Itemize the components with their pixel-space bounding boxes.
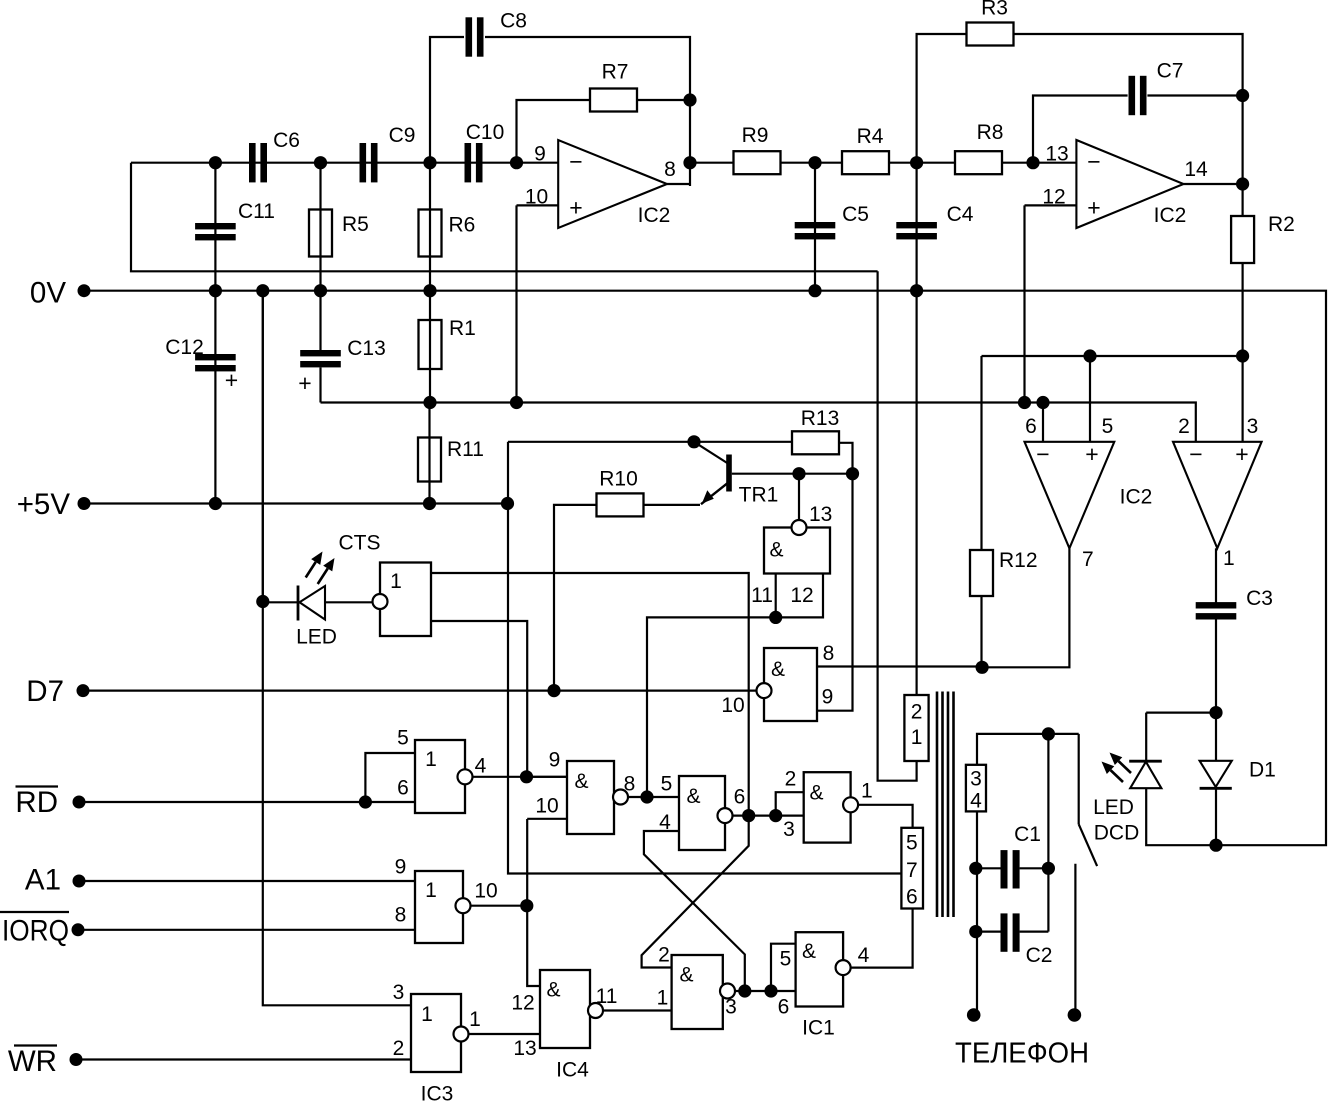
- svg-text:9: 9: [549, 749, 561, 772]
- resistor R7: [590, 89, 637, 112]
- wire winding1 bottom: [878, 271, 917, 780]
- node C11 0V junction: [209, 284, 222, 297]
- logic gate IC3a RD: [415, 740, 465, 813]
- wire pin5 loop: [365, 753, 415, 802]
- node C5 junction: [808, 156, 821, 169]
- wire bias rail upper: [131, 163, 878, 272]
- svg-text:RD: RD: [15, 786, 58, 819]
- node R6 0V junction: [423, 284, 436, 297]
- wire pin6 stub: [1042, 403, 1044, 442]
- svg-text:8: 8: [823, 642, 835, 665]
- svg-text:8: 8: [664, 158, 676, 181]
- wire LED down: [1145, 713, 1147, 762]
- svg-text:−: −: [1087, 149, 1100, 175]
- node 0V terminal: [78, 284, 91, 297]
- wire X-cross B: [644, 831, 745, 991]
- transistor TR1: [694, 442, 727, 463]
- svg-text:12: 12: [790, 584, 813, 607]
- wire pin10 input: [527, 818, 567, 820]
- node pin5 junction: [1083, 349, 1096, 362]
- wire G9 output: [735, 990, 796, 992]
- wire WR line: [76, 1058, 411, 1060]
- svg-text:6: 6: [906, 886, 918, 909]
- svg-text:10: 10: [474, 880, 497, 903]
- logic gate IC4: [540, 970, 590, 1048]
- svg-text:1: 1: [469, 1008, 481, 1031]
- node base-gate junction: [792, 467, 805, 480]
- node phone terminal left: [967, 1008, 981, 1022]
- wire IC3 output: [469, 1033, 541, 1035]
- wire pin3 stub: [1241, 356, 1243, 442]
- svg-text:3: 3: [1247, 415, 1259, 438]
- svg-text:&: &: [809, 782, 823, 805]
- capacitor C4: [896, 222, 937, 228]
- wire winding4 bottom: [976, 811, 978, 1015]
- wire CTS gate lower input: [431, 621, 527, 777]
- op-amp U4 IC2d: [1173, 442, 1262, 549]
- svg-text:C8: C8: [500, 10, 527, 33]
- wire C8 branch: [430, 37, 464, 163]
- node R1 bias junction: [423, 396, 436, 409]
- svg-text:6: 6: [397, 777, 409, 800]
- node WR terminal: [70, 1053, 83, 1066]
- svg-text:C6: C6: [273, 129, 300, 152]
- svg-text:IC2: IC2: [638, 204, 671, 227]
- svg-text:10: 10: [721, 694, 744, 717]
- capacitor C2: [976, 930, 1001, 932]
- node R12 output-7 junction: [976, 661, 989, 674]
- node RD terminal: [73, 796, 86, 809]
- svg-text:+5V: +5V: [17, 488, 71, 521]
- resistor R6: [419, 210, 442, 257]
- svg-text:−: −: [1036, 441, 1049, 467]
- node pin11 junction: [769, 611, 782, 624]
- logic gate G5 rx-enable: [567, 761, 614, 834]
- wire C7 branch: [1033, 96, 1128, 163]
- svg-text:IC4: IC4: [556, 1059, 589, 1082]
- wire output column: [1241, 96, 1243, 217]
- node decode junction: [520, 899, 533, 912]
- resistor R8: [955, 151, 1002, 174]
- node C6 left junction: [209, 156, 222, 169]
- svg-text:2: 2: [911, 701, 923, 724]
- node R7 output junction: [683, 93, 696, 106]
- svg-text:3: 3: [725, 996, 737, 1019]
- svg-text:−: −: [1189, 441, 1202, 467]
- capacitor C1: [976, 867, 1001, 869]
- svg-text:3: 3: [393, 981, 405, 1004]
- wire R3 to right column: [1014, 34, 1243, 96]
- wire wired-AND output: [473, 776, 568, 778]
- svg-text:C12: C12: [165, 336, 204, 359]
- wire centre-tap feed: [508, 504, 901, 874]
- wire R2 down: [1241, 263, 1243, 356]
- svg-text:&: &: [802, 940, 816, 963]
- svg-text:9: 9: [395, 856, 407, 879]
- svg-text:R1: R1: [449, 317, 476, 340]
- node op-amp2 +input bias junction: [1018, 396, 1031, 409]
- resistor R10: [597, 493, 644, 516]
- node 0V LED-column junction: [256, 284, 269, 297]
- node D7 terminal: [77, 684, 90, 697]
- capacitor C9: [360, 143, 367, 182]
- node C1 left junction: [969, 862, 982, 875]
- svg-text:1: 1: [1223, 547, 1235, 570]
- wire LED column: [262, 291, 264, 602]
- svg-text:C7: C7: [1157, 60, 1184, 83]
- wire 0V to pin3: [263, 291, 411, 1006]
- node pin13 junction: [1026, 156, 1039, 169]
- wire winding2 top: [915, 291, 917, 695]
- svg-text:R4: R4: [857, 125, 884, 148]
- svg-text:WR: WR: [8, 1045, 57, 1078]
- wire winding3 top: [977, 734, 1079, 765]
- svg-text:11: 11: [596, 985, 618, 1008]
- svg-text:1: 1: [911, 726, 923, 749]
- svg-text:C3: C3: [1246, 587, 1273, 610]
- diode D1: [1200, 761, 1232, 787]
- logic gate G9 latch: [672, 955, 723, 1029]
- node G6 out junction B: [769, 809, 782, 822]
- wire R3 branch: [917, 34, 966, 163]
- svg-text:+: +: [1087, 195, 1100, 221]
- node pin6 bias junction: [1036, 396, 1049, 409]
- node wired-AND junction: [520, 770, 533, 783]
- wire G8 pin8 input: [817, 665, 982, 667]
- svg-text:IORQ: IORQ: [2, 915, 69, 948]
- svg-text:+: +: [225, 367, 238, 393]
- node G9 out junction B: [764, 984, 777, 997]
- wire input chain row: [131, 162, 558, 164]
- wire decode output: [471, 905, 527, 907]
- node A1 terminal: [73, 875, 86, 888]
- logic gate G13 TX: [764, 528, 830, 574]
- svg-text:DCD: DCD: [1094, 822, 1140, 845]
- svg-text:R5: R5: [342, 213, 369, 236]
- capacitor C10: [465, 143, 472, 182]
- svg-text:1: 1: [425, 879, 437, 902]
- wire C-column: [1047, 734, 1049, 932]
- wire op-amp3 output: [982, 548, 1069, 667]
- svg-text:6: 6: [778, 996, 790, 1019]
- wire output row: [690, 162, 734, 164]
- node R10 D7 junction: [547, 684, 560, 697]
- svg-text:0V: 0V: [30, 277, 66, 310]
- svg-text:R12: R12: [999, 549, 1038, 572]
- hook switch: [1078, 734, 1080, 824]
- svg-text:8: 8: [624, 773, 636, 796]
- wire RD line: [79, 801, 415, 803]
- svg-text:&: &: [769, 539, 783, 562]
- node R4-R8 junction: [910, 156, 923, 169]
- wire G5-to-G13 link: [647, 617, 776, 797]
- capacitor C5: [795, 222, 836, 228]
- svg-text:R6: R6: [449, 214, 476, 237]
- svg-text:2: 2: [393, 1037, 405, 1060]
- svg-text:+: +: [1085, 441, 1098, 467]
- svg-text:C9: C9: [389, 124, 416, 147]
- node R5 0V junction: [314, 284, 327, 297]
- svg-text:C11: C11: [238, 200, 275, 223]
- svg-text:&: &: [679, 964, 693, 987]
- wire IC4 output: [603, 1009, 672, 1011]
- resistor R5: [309, 210, 332, 257]
- svg-text:5: 5: [780, 948, 792, 971]
- svg-text:5: 5: [397, 727, 409, 750]
- svg-text:9: 9: [534, 143, 546, 166]
- logic gate G7 buffer: [804, 772, 851, 842]
- svg-text:R8: R8: [977, 121, 1004, 144]
- node base-R13 junction: [846, 467, 859, 480]
- wire pin9 input: [527, 776, 568, 778]
- wire C3 down: [1215, 619, 1217, 713]
- node C4 0V junction: [910, 284, 923, 297]
- svg-text:1: 1: [657, 987, 669, 1010]
- logic gate IC3b decode: [415, 871, 463, 943]
- node R2 row junction: [1236, 349, 1249, 362]
- svg-text:1: 1: [421, 1003, 433, 1026]
- resistor R9: [734, 151, 781, 174]
- wire comparator feed row: [982, 355, 1243, 357]
- transformer winding 2-1: [904, 695, 928, 761]
- resistor R4: [842, 151, 889, 174]
- svg-text:C13: C13: [347, 337, 386, 360]
- wire pin12 input: [1025, 204, 1077, 206]
- transformer winding 5-7-6: [901, 828, 923, 909]
- wire pin10 input: [517, 204, 559, 206]
- logic gate G6 osc: [679, 776, 725, 850]
- svg-text:14: 14: [1184, 158, 1208, 181]
- node C7 output junction: [1236, 89, 1249, 102]
- wire +5V rail: [84, 502, 508, 504]
- wire G7 output: [858, 805, 913, 828]
- svg-text:+: +: [569, 195, 582, 221]
- logic gate G10 IC1: [796, 932, 844, 1006]
- svg-text:&: &: [771, 658, 785, 681]
- op-amp U1 IC2a: [558, 140, 667, 228]
- svg-text:4: 4: [475, 755, 487, 778]
- svg-text:CTS: CTS: [339, 532, 381, 555]
- svg-text:10: 10: [525, 186, 548, 209]
- capacitor C7: [1129, 76, 1136, 115]
- svg-text:6: 6: [1025, 415, 1037, 438]
- wire R10 to emitter: [644, 504, 700, 506]
- svg-text:7: 7: [1082, 548, 1094, 571]
- svg-text:C5: C5: [842, 203, 869, 226]
- svg-text:10: 10: [535, 795, 558, 818]
- svg-text:D1: D1: [1249, 759, 1276, 782]
- wire 0V rail: [84, 291, 1326, 846]
- capacitor C6: [249, 143, 256, 182]
- node IORQ terminal: [72, 923, 85, 936]
- svg-text:D7: D7: [26, 675, 64, 708]
- svg-text:R11: R11: [447, 438, 484, 461]
- svg-text:R9: R9: [742, 124, 769, 147]
- capacitor C3: [1196, 602, 1237, 608]
- svg-text:5: 5: [906, 832, 918, 855]
- svg-text:2: 2: [658, 944, 670, 967]
- svg-text:13: 13: [809, 503, 832, 526]
- svg-text:2: 2: [1178, 415, 1190, 438]
- resistor R13: [792, 431, 839, 454]
- op-amp U2 IC2b: [1076, 140, 1183, 228]
- svg-text:A1: A1: [25, 864, 61, 897]
- wire decode column: [527, 819, 540, 986]
- svg-text:13: 13: [1045, 143, 1068, 166]
- svg-text:1: 1: [861, 780, 873, 803]
- wire R7 to output node: [637, 99, 690, 101]
- wire G6 output: [733, 814, 804, 816]
- capacitor C11: [195, 223, 236, 229]
- svg-text:8: 8: [395, 904, 407, 927]
- wire G8 pin9 input: [817, 474, 853, 711]
- wire R9-R4: [780, 162, 842, 164]
- node TR1 collector junction: [687, 435, 700, 448]
- wire R7 feedback top: [517, 100, 591, 163]
- svg-text:9: 9: [822, 686, 834, 709]
- svg-text:TR1: TR1: [739, 484, 779, 507]
- wire G10 output: [851, 909, 913, 968]
- svg-text:4: 4: [970, 790, 982, 813]
- resistor R1: [419, 320, 442, 369]
- svg-text:2: 2: [785, 768, 797, 791]
- node C1 right junction: [1042, 862, 1055, 875]
- logic gate G8 D7 driver: [764, 648, 817, 721]
- node phone terminal right: [1068, 1008, 1082, 1022]
- svg-text:IC2: IC2: [1154, 204, 1187, 227]
- svg-text:IC2: IC2: [1120, 486, 1153, 509]
- svg-text:−: −: [569, 149, 582, 175]
- svg-text:5: 5: [1102, 415, 1114, 438]
- svg-text:&: &: [546, 979, 560, 1002]
- resistor R11: [418, 438, 441, 482]
- wire G13 input 12: [776, 574, 823, 618]
- wire X-cross A: [642, 816, 749, 968]
- svg-text:4: 4: [858, 944, 870, 967]
- wire op-amp1 output: [667, 183, 690, 185]
- LED CTS: [263, 601, 297, 603]
- node G5 output junction: [640, 790, 653, 803]
- svg-text:5: 5: [661, 773, 673, 796]
- svg-text:IC1: IC1: [802, 1017, 835, 1040]
- svg-text:1: 1: [390, 570, 402, 593]
- LED DCD: [1129, 760, 1162, 763]
- capacitor C12: [195, 354, 236, 360]
- node +5V feed junction: [501, 497, 514, 510]
- wire C7 to column: [1147, 94, 1242, 96]
- logic gate IC3c WR: [411, 994, 461, 1072]
- svg-text:R7: R7: [602, 61, 629, 84]
- wire CTS gate upper input: [431, 573, 749, 816]
- node C9-C10 junction: [423, 156, 436, 169]
- wire G13 output: [798, 474, 800, 520]
- svg-text:R10: R10: [599, 468, 638, 491]
- node R11 +5V junction: [423, 497, 436, 510]
- wire R4 to node: [889, 162, 917, 164]
- svg-text:+: +: [298, 370, 311, 396]
- svg-text:LED: LED: [296, 626, 337, 649]
- op-amp U3 IC2c: [1025, 442, 1115, 549]
- wire D1 column: [1215, 713, 1217, 761]
- wire C8 to output node: [485, 37, 690, 186]
- node C3 diode junction: [1209, 706, 1222, 719]
- node C5 0V junction: [808, 284, 821, 297]
- svg-text:7: 7: [906, 859, 918, 882]
- svg-text:R13: R13: [801, 407, 840, 430]
- svg-text:13: 13: [513, 1037, 536, 1060]
- node RD loop junction: [359, 795, 372, 808]
- node LED anode junction: [256, 595, 269, 608]
- svg-text:12: 12: [511, 992, 534, 1015]
- svg-text:C10: C10: [466, 121, 505, 144]
- node op-amp1 +input bias junction: [510, 396, 523, 409]
- capacitor C13: [300, 350, 341, 356]
- svg-text:&: &: [686, 785, 700, 808]
- node G6 out junction A: [742, 809, 755, 822]
- wire pin5 stub: [1089, 356, 1091, 442]
- wire R8 row: [917, 162, 954, 164]
- svg-text:C4: C4: [947, 203, 974, 226]
- capacitor C8: [466, 17, 473, 56]
- svg-text:R2: R2: [1268, 213, 1295, 236]
- resistor R12: [970, 550, 993, 596]
- wire collector rail: [507, 442, 509, 504]
- node +5V terminal: [78, 497, 91, 510]
- wire to LED branch: [1146, 711, 1216, 713]
- wire G13 input 11: [775, 574, 777, 618]
- svg-text:6: 6: [734, 786, 746, 809]
- node C6-C9 junction: [314, 156, 327, 169]
- svg-text:3: 3: [783, 818, 795, 841]
- resistor R2: [1231, 216, 1254, 263]
- wire G10 pin5 input: [771, 944, 796, 991]
- svg-text:C1: C1: [1014, 823, 1041, 846]
- svg-text:1: 1: [425, 748, 437, 771]
- svg-text:R3: R3: [981, 0, 1008, 20]
- svg-text:11: 11: [751, 584, 773, 607]
- node C12 +5V junction: [209, 497, 222, 510]
- node G9 out junction A: [738, 984, 751, 997]
- wire G7 pin2 input: [776, 792, 804, 815]
- node diode 0V junction: [1209, 839, 1222, 852]
- svg-text:3: 3: [970, 768, 982, 791]
- node op-amp pin9 junction: [510, 156, 523, 169]
- svg-text:ТЕЛЕФОН: ТЕЛЕФОН: [955, 1038, 1089, 1070]
- wire G5 output: [628, 796, 679, 798]
- svg-text:C2: C2: [1026, 944, 1053, 967]
- svg-text:&: &: [574, 770, 588, 793]
- wire IORQ line: [78, 929, 415, 931]
- wire A1 line: [79, 880, 415, 882]
- wire op-amp4 output: [1215, 548, 1217, 603]
- svg-text:+: +: [1235, 441, 1248, 467]
- transformer winding 3-4: [966, 765, 986, 812]
- node hook-switch junction: [1042, 727, 1055, 740]
- wire op-amp2 output: [1184, 183, 1243, 185]
- wire D7 line: [83, 689, 757, 691]
- svg-text:LED: LED: [1093, 796, 1134, 819]
- logic gate CTS driver: [380, 563, 431, 637]
- wire TR1 base lead: [732, 473, 853, 475]
- svg-text:IC3: IC3: [421, 1083, 454, 1103]
- node op-amp2 output junction: [1236, 177, 1249, 190]
- node op-amp1 output junction: [683, 156, 696, 169]
- wire R10 to D7 line: [554, 505, 596, 691]
- transformer core: [936, 692, 939, 918]
- wire bias rail lower: [321, 403, 1196, 442]
- resistor R3: [967, 23, 1014, 46]
- node C2 left junction: [969, 925, 982, 938]
